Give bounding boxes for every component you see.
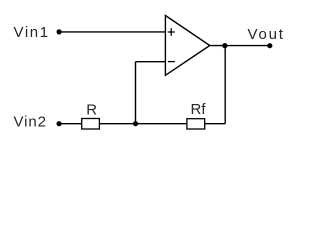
svg-text:Rf: Rf (191, 101, 207, 118)
wire Vin1 to op-amp non-inverting input (59, 31, 165, 33)
wire right vertical to output (224, 46, 226, 124)
wire Rf to right vertical (205, 123, 226, 125)
wire R to Rf (99, 123, 186, 125)
node Vin1 terminal dot (57, 29, 62, 34)
pin - (inverting input) (168, 61, 175, 63)
svg-text:Vin1: Vin1 (14, 24, 50, 41)
svg-text:R: R (86, 101, 97, 118)
wire feedback vertical (135, 62, 137, 124)
svg-text:Vin2: Vin2 (14, 113, 47, 130)
node output junction dot (222, 43, 227, 48)
svg-text:Vout: Vout (248, 26, 285, 43)
node Vout terminal dot (267, 43, 272, 48)
node Vin2 terminal dot (57, 121, 62, 126)
node junction R-Rf-feedback (133, 121, 138, 126)
wire op-amp output to Vout (210, 45, 270, 47)
op-amp U1 (165, 16, 209, 76)
pin + (non-inverting input) (168, 28, 175, 36)
resistor Rf (187, 119, 205, 129)
wire inverting input feedback horizontal (136, 61, 166, 63)
wire Vin2 to resistor R (59, 123, 82, 125)
resistor R (82, 119, 100, 130)
